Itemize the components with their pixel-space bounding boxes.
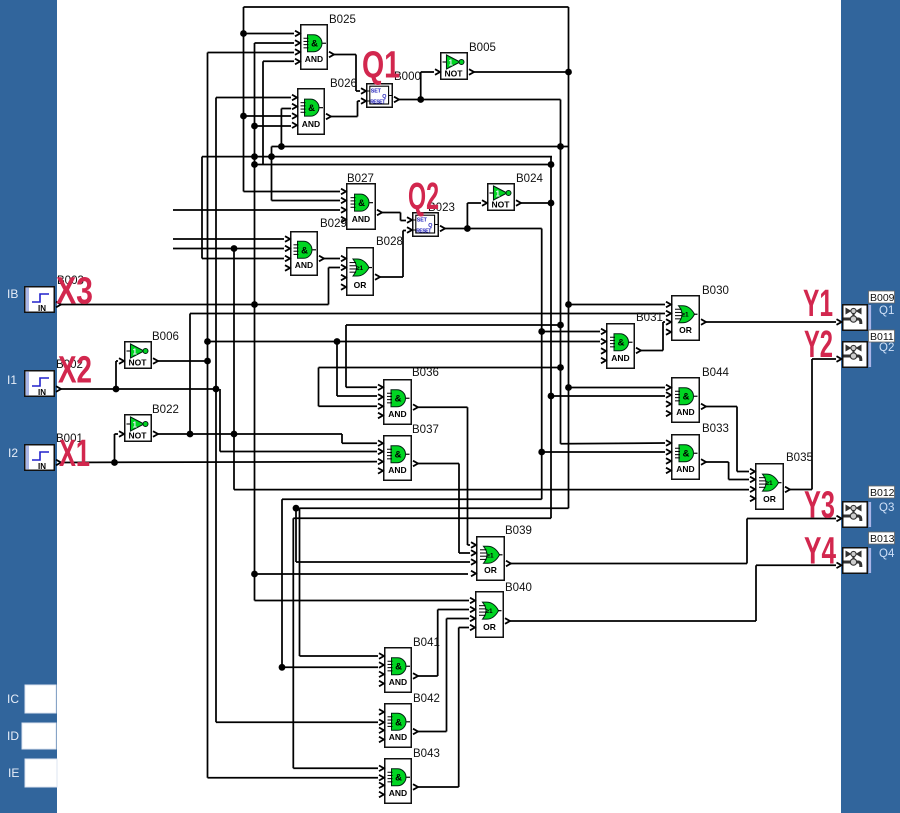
svg-text:B005: B005 (469, 42, 496, 54)
svg-text:1: 1 (133, 348, 138, 357)
svg-text:Q3: Q3 (879, 502, 894, 514)
svg-text:I1: I1 (7, 373, 17, 387)
svg-text:AND: AND (295, 260, 313, 270)
svg-text:&: & (301, 245, 308, 256)
svg-text:B036: B036 (412, 367, 439, 379)
svg-text:Y3: Y3 (804, 485, 835, 527)
svg-text:AND: AND (302, 119, 320, 129)
svg-text:B026: B026 (330, 78, 357, 90)
svg-text:IE: IE (8, 766, 19, 780)
svg-text:X1: X1 (59, 433, 90, 475)
svg-text:I2: I2 (8, 446, 18, 460)
svg-text:OR: OR (763, 494, 776, 504)
svg-text:NOT: NOT (129, 431, 148, 441)
svg-text:≥1: ≥1 (765, 480, 773, 487)
svg-text:&: & (395, 773, 402, 784)
svg-text:AND: AND (352, 214, 370, 224)
svg-text:1: 1 (449, 59, 454, 68)
svg-text:&: & (358, 198, 365, 209)
svg-text:AND: AND (388, 465, 406, 475)
svg-text:OR: OR (484, 565, 497, 575)
svg-text:Q1: Q1 (879, 305, 894, 317)
svg-text:SET: SET (371, 88, 382, 94)
svg-text:&: & (308, 103, 315, 114)
svg-text:IC: IC (7, 692, 19, 706)
svg-text:B029: B029 (320, 218, 347, 230)
svg-text:NOT: NOT (129, 358, 148, 368)
svg-text:&: & (311, 39, 318, 50)
svg-text:AND: AND (676, 407, 694, 417)
svg-text:IN: IN (38, 304, 46, 313)
svg-text:AND: AND (389, 788, 407, 798)
svg-text:&: & (683, 449, 690, 460)
svg-text:OR: OR (679, 325, 692, 335)
svg-text:≥1: ≥1 (485, 608, 493, 615)
svg-text:B030: B030 (702, 285, 729, 297)
svg-text:IN: IN (38, 462, 46, 471)
svg-text:B012: B012 (870, 487, 895, 499)
svg-text:Y2: Y2 (804, 324, 833, 366)
svg-text:B009: B009 (870, 292, 895, 304)
svg-text:&: & (395, 717, 402, 728)
svg-text:≥1: ≥1 (681, 312, 689, 319)
svg-text:B040: B040 (505, 582, 532, 594)
svg-text:NOT: NOT (492, 200, 511, 210)
svg-text:B039: B039 (505, 525, 532, 537)
svg-text:AND: AND (389, 732, 407, 742)
svg-text:B044: B044 (702, 367, 729, 379)
svg-text:ID: ID (7, 729, 19, 743)
svg-text:AND: AND (389, 677, 407, 687)
svg-text:B013: B013 (870, 533, 895, 545)
svg-text:Q2: Q2 (408, 176, 439, 218)
svg-text:1: 1 (133, 421, 138, 430)
svg-text:B031: B031 (636, 312, 663, 324)
svg-text:B028: B028 (376, 236, 403, 248)
svg-text:&: & (395, 450, 402, 461)
svg-text:IB: IB (7, 287, 18, 301)
svg-text:Y1: Y1 (803, 283, 833, 325)
svg-text:AND: AND (305, 54, 323, 64)
svg-text:IN: IN (38, 388, 46, 397)
svg-text:AND: AND (388, 409, 406, 419)
svg-text:B035: B035 (786, 452, 813, 464)
svg-text:&: & (618, 338, 625, 349)
svg-text:&: & (683, 392, 690, 403)
svg-text:NOT: NOT (445, 69, 464, 79)
svg-text:Y4: Y4 (804, 531, 836, 573)
svg-text:B043: B043 (413, 748, 440, 760)
svg-text:B041: B041 (413, 637, 440, 649)
svg-text:X3: X3 (56, 271, 93, 313)
svg-text:B033: B033 (702, 423, 729, 435)
svg-text:OR: OR (354, 280, 367, 290)
svg-text:Q1: Q1 (362, 45, 400, 87)
svg-text:B024: B024 (516, 173, 543, 185)
svg-text:OR: OR (483, 622, 496, 632)
svg-text:B006: B006 (152, 331, 179, 343)
svg-text:RESET: RESET (370, 99, 385, 105)
svg-text:B022: B022 (152, 404, 179, 416)
svg-text:SET: SET (417, 217, 428, 223)
svg-text:AND: AND (611, 353, 629, 363)
svg-text:RESET: RESET (416, 228, 431, 234)
svg-text:AND: AND (676, 464, 694, 474)
svg-text:X2: X2 (58, 350, 92, 392)
svg-text:≥1: ≥1 (486, 552, 494, 559)
svg-text:1: 1 (496, 190, 501, 199)
svg-text:&: & (395, 662, 402, 673)
svg-text:B027: B027 (347, 173, 374, 185)
svg-text:Q2: Q2 (879, 342, 894, 354)
svg-text:&: & (395, 394, 402, 405)
svg-text:≥1: ≥1 (356, 265, 364, 272)
svg-text:B042: B042 (413, 693, 440, 705)
svg-text:B025: B025 (329, 14, 356, 26)
svg-text:B037: B037 (412, 424, 439, 436)
svg-text:Q4: Q4 (879, 548, 895, 560)
